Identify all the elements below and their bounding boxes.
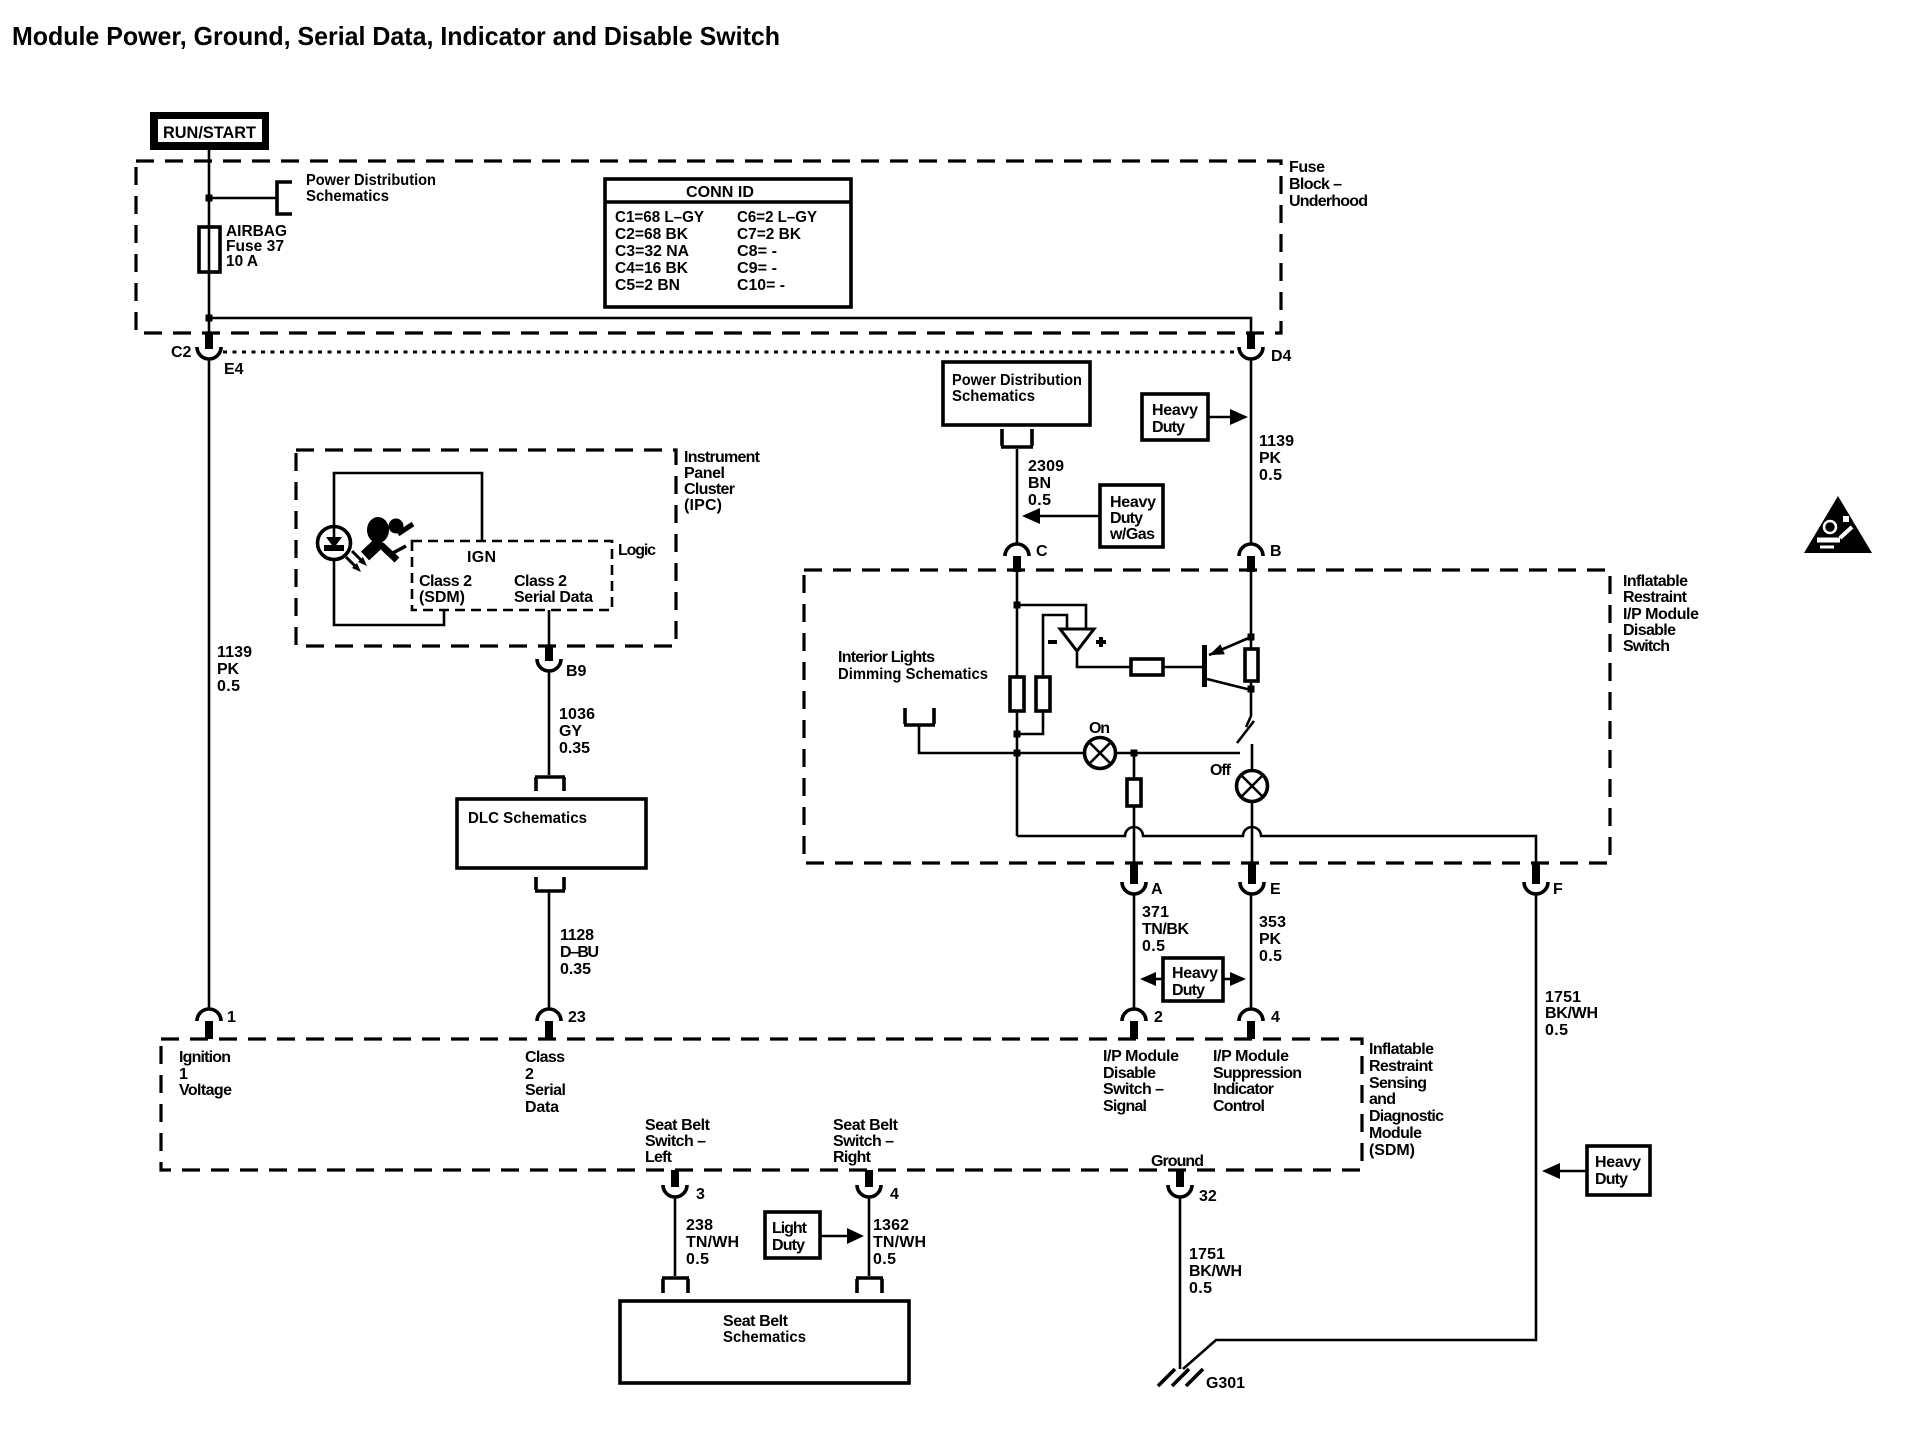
svg-text:Voltage: Voltage	[179, 1082, 232, 1099]
svg-text:PK: PK	[1259, 450, 1281, 467]
svg-text:C1=68 L–GY: C1=68 L–GY	[615, 209, 704, 226]
svg-text:0.5: 0.5	[686, 1251, 709, 1268]
label I/P Module Disable Switch - Signal	[1103, 1048, 1179, 1115]
svg-text:238: 238	[686, 1217, 713, 1234]
svg-text:Signal: Signal	[1103, 1098, 1147, 1115]
wire bus to D4	[209, 318, 1251, 333]
SDM dashed box	[161, 1039, 1362, 1170]
svg-text:Module: Module	[1369, 1125, 1422, 1142]
svg-text:0.5: 0.5	[217, 678, 240, 695]
svg-text:BK/WH: BK/WH	[1545, 1005, 1598, 1022]
svg-text:E: E	[1270, 881, 1281, 898]
svg-text:Seat Belt: Seat Belt	[833, 1117, 899, 1134]
svg-text:Switch –: Switch –	[645, 1133, 706, 1150]
svg-text:Schematics: Schematics	[306, 188, 389, 205]
label Inflatable Restraint I/P Module Disable Switch	[1623, 573, 1699, 655]
svg-text:I/P Module: I/P Module	[1623, 606, 1699, 623]
svg-text:2: 2	[1154, 1009, 1163, 1026]
wire pin 3 to seat belt schematics (238 TN/WH)	[674, 1197, 677, 1276]
airbag indicator lamp LED	[318, 527, 351, 560]
label Fuse Block - Underhood	[1289, 159, 1368, 210]
wire comparator output to base resistor	[1077, 651, 1131, 667]
svg-text:TN/WH: TN/WH	[686, 1234, 739, 1251]
connector D4	[1239, 333, 1292, 365]
label 2309 BN 0.5	[1028, 458, 1064, 509]
svg-text:D4: D4	[1271, 348, 1292, 365]
wire divider bottoms join	[1017, 711, 1043, 753]
svg-text:Switch –: Switch –	[833, 1133, 894, 1150]
svg-text:TN/BK: TN/BK	[1142, 921, 1189, 938]
label 1751 BK/WH 0.5 upper	[1545, 989, 1598, 1039]
svg-text:1751: 1751	[1189, 1246, 1225, 1263]
bracket above DLC box	[535, 777, 565, 791]
connector 3	[663, 1170, 705, 1203]
connector 32	[1168, 1170, 1217, 1205]
wire main vertical to ground bus	[1016, 753, 1019, 836]
svg-text:C7=2 BK: C7=2 BK	[737, 226, 801, 243]
connector 4	[1239, 1009, 1280, 1039]
svg-text:C5=2 BN: C5=2 BN	[615, 277, 680, 294]
bracket below DLC box	[535, 877, 565, 891]
svg-text:Data: Data	[525, 1099, 559, 1116]
svg-text:BK/WH: BK/WH	[1189, 1263, 1242, 1280]
connector 1	[197, 1009, 236, 1039]
svg-text:1128: 1128	[560, 927, 594, 944]
label AIRBAG Fuse 37 10 A	[226, 223, 287, 270]
airbag warning triangle	[1804, 496, 1872, 553]
svg-text:(IPC): (IPC)	[684, 497, 722, 514]
svg-text:RUN/START: RUN/START	[163, 123, 257, 142]
label Seat Belt Switch - Right	[833, 1117, 899, 1166]
svg-text:Duty: Duty	[1595, 1171, 1628, 1188]
node junction collector	[1248, 686, 1255, 693]
svg-text:Module Power, Ground, Serial D: Module Power, Ground, Serial Data, Indic…	[12, 21, 780, 51]
label Class 2 (SDM)	[419, 573, 472, 606]
resistor R divider right	[1036, 677, 1050, 711]
connector A	[1122, 863, 1163, 898]
node junction comparator feed	[1014, 602, 1021, 609]
wire class 2 serial data to B9	[548, 610, 551, 646]
label Instrument Panel Cluster (IPC)	[684, 449, 761, 514]
label 1036 GY 0.35	[559, 706, 595, 757]
wire resistor to A	[1133, 806, 1136, 863]
wire comparator minus input to divider	[1043, 615, 1067, 677]
wire D4 to B (1139 PK)	[1250, 359, 1253, 544]
svg-text:Disable: Disable	[1103, 1065, 1156, 1082]
svg-text:I/P Module: I/P Module	[1213, 1048, 1289, 1065]
svg-text:Duty: Duty	[772, 1237, 805, 1254]
wire 2309 BN to C	[1016, 449, 1019, 544]
svg-text:353: 353	[1259, 914, 1286, 931]
svg-text:TN/WH: TN/WH	[873, 1234, 926, 1251]
connector B9	[537, 646, 587, 680]
svg-text:0.5: 0.5	[1545, 1022, 1568, 1039]
wire to comparator plus input	[1017, 605, 1086, 629]
wire 1128 D-BU	[548, 892, 551, 1009]
svg-text:Instrument: Instrument	[684, 449, 761, 466]
power distribution stub bracket	[277, 182, 292, 214]
svg-text:CONN ID: CONN ID	[686, 184, 754, 201]
bracket above seat belt box left	[662, 1278, 689, 1293]
bracket below power distribution box	[1001, 429, 1033, 447]
svg-text:Disable: Disable	[1623, 622, 1676, 639]
svg-text:Heavy: Heavy	[1595, 1154, 1641, 1171]
svg-text:Block –: Block –	[1289, 176, 1342, 193]
svg-text:Dimming Schematics: Dimming Schematics	[838, 666, 988, 683]
svg-text:23: 23	[568, 1009, 586, 1026]
lamp Off	[1237, 771, 1268, 802]
svg-text:Suppression: Suppression	[1213, 1065, 1302, 1082]
svg-text:C6=2 L–GY: C6=2 L–GY	[737, 209, 817, 226]
node junction main vertical at lamp line	[1014, 750, 1021, 757]
wire RUN/START to fuse	[208, 150, 211, 227]
wire IPC indicator loop	[334, 473, 482, 625]
in-line connector dotted line	[223, 351, 1238, 354]
svg-text:3: 3	[696, 1186, 705, 1203]
node junction disable signal tap	[1131, 750, 1138, 757]
connector F	[1524, 863, 1563, 898]
svg-text:Switch: Switch	[1623, 638, 1670, 655]
fuse AIRBAG Fuse 37 10A	[199, 227, 220, 272]
label Inflatable Restraint Sensing and Diagnostic Module (SDM)	[1369, 1041, 1444, 1159]
svg-text:Ground: Ground	[1151, 1153, 1204, 1170]
wire on lamp to switch	[1116, 752, 1240, 755]
logic dashed box	[412, 541, 612, 610]
svg-text:I/P Module: I/P Module	[1103, 1048, 1179, 1065]
svg-text:PK: PK	[1259, 931, 1281, 948]
heavy duty w/gas flag box	[1022, 485, 1163, 547]
wire F to ground (1751 BK/WH)	[1183, 894, 1536, 1369]
bracket interior lights dimming	[904, 708, 935, 725]
label I/P Module Suppression Indicator Control	[1213, 1048, 1302, 1115]
wire C into box	[1016, 572, 1019, 677]
svg-text:F: F	[1553, 881, 1563, 898]
airbag pictogram	[365, 517, 413, 560]
svg-text:0.5: 0.5	[1259, 948, 1282, 965]
svg-text:E4: E4	[224, 361, 244, 378]
ground bus with hops to F	[1017, 827, 1536, 863]
heavy duty flag box right	[1542, 1146, 1650, 1195]
svg-text:Inflatable: Inflatable	[1369, 1041, 1434, 1058]
svg-text:Left: Left	[645, 1149, 673, 1166]
resistor base	[1131, 659, 1163, 675]
wire collector to switch contact	[1246, 681, 1251, 727]
heavy duty flag box middle	[1140, 958, 1246, 1001]
svg-text:and: and	[1369, 1091, 1396, 1108]
CONN ID table	[605, 179, 851, 307]
svg-text:PK: PK	[217, 661, 239, 678]
label Power Distribution Schematics	[306, 172, 436, 205]
node junction divider	[1014, 731, 1021, 738]
svg-text:Interior Lights: Interior Lights	[838, 649, 935, 666]
svg-text:Diagnostic: Diagnostic	[1369, 1108, 1444, 1125]
svg-text:Serial Data: Serial Data	[514, 589, 593, 606]
resistor disable signal	[1127, 779, 1141, 806]
svg-text:Logic: Logic	[618, 542, 656, 559]
wire disable signal branch	[1133, 753, 1136, 779]
svg-text:IGN: IGN	[467, 549, 496, 566]
svg-text:4: 4	[1271, 1009, 1280, 1026]
svg-text:Duty: Duty	[1172, 982, 1205, 999]
svg-text:1036: 1036	[559, 706, 595, 723]
power distribution schematics box	[943, 362, 1090, 425]
svg-text:BN: BN	[1028, 475, 1051, 492]
connector 23	[537, 1009, 586, 1039]
wire pin 32 to ground (1751 BK/WH)	[1179, 1197, 1182, 1369]
wire 1036 GY	[548, 671, 551, 775]
svg-text:Inflatable: Inflatable	[1623, 573, 1688, 590]
svg-text:0.5: 0.5	[873, 1251, 896, 1268]
wire off lamp to E	[1251, 801, 1254, 863]
label 1139 PK 0.5 right	[1259, 433, 1294, 484]
svg-text:0.5: 0.5	[1028, 492, 1051, 509]
bracket above seat belt box right	[856, 1278, 883, 1293]
svg-text:0.5: 0.5	[1189, 1280, 1212, 1297]
svg-text:0.35: 0.35	[559, 740, 590, 757]
svg-text:371: 371	[1142, 904, 1169, 921]
svg-text:Seat Belt: Seat Belt	[645, 1117, 711, 1134]
label Ignition 1 Voltage	[179, 1049, 232, 1099]
wire bracket stem to on lamp line	[919, 726, 1084, 753]
svg-text:1139: 1139	[217, 644, 252, 661]
svg-text:Underhood: Underhood	[1289, 193, 1368, 210]
svg-text:DLC Schematics: DLC Schematics	[468, 810, 587, 827]
wire switch to off lamp	[1251, 744, 1254, 771]
connector C	[1005, 543, 1048, 572]
svg-text:D–BU: D–BU	[560, 944, 599, 961]
wire C2 to SDM pin 1 (1139 PK)	[208, 359, 211, 1009]
svg-text:32: 32	[1199, 1188, 1217, 1205]
svg-text:Duty: Duty	[1152, 419, 1185, 436]
seat belt schematics box	[620, 1301, 909, 1383]
svg-text:Duty: Duty	[1110, 510, 1143, 527]
svg-text:B: B	[1270, 543, 1282, 560]
svg-text:Control: Control	[1213, 1098, 1265, 1115]
svg-text:2309: 2309	[1028, 458, 1064, 475]
svg-text:Restraint: Restraint	[1623, 589, 1688, 606]
wire tap to power distribution stub	[209, 197, 277, 200]
svg-text:G301: G301	[1206, 1375, 1245, 1392]
svg-text:1139: 1139	[1259, 433, 1294, 450]
label 1751 BK/WH 0.5 lower	[1189, 1246, 1242, 1297]
resistor R divider left	[1010, 677, 1024, 711]
connector B	[1239, 543, 1282, 572]
resistor collector load	[1245, 649, 1258, 681]
svg-text:0.5: 0.5	[1259, 467, 1282, 484]
svg-text:Sensing: Sensing	[1369, 1075, 1427, 1092]
label 353 PK 0.5	[1259, 914, 1286, 965]
svg-text:(SDM): (SDM)	[1369, 1142, 1415, 1159]
svg-text:Class 2: Class 2	[419, 573, 472, 590]
svg-text:4: 4	[890, 1186, 899, 1203]
connector E	[1240, 863, 1281, 898]
svg-text:Heavy: Heavy	[1172, 965, 1218, 982]
node junction feed to D4	[206, 315, 213, 322]
label 1139 PK 0.5 left	[217, 644, 252, 695]
svg-text:1: 1	[179, 1066, 188, 1083]
svg-text:1751: 1751	[1545, 989, 1581, 1006]
svg-text:C9= -: C9= -	[737, 260, 777, 277]
connector C2 E4	[171, 333, 244, 378]
label Class 2 Serial Data	[514, 573, 593, 606]
light duty flag box	[765, 1212, 864, 1258]
wire B into box to emitter junction	[1250, 572, 1253, 649]
indicator ray arrows	[346, 551, 367, 572]
svg-text:Cluster: Cluster	[684, 481, 735, 498]
svg-text:GY: GY	[559, 723, 582, 740]
svg-text:C10= -: C10= -	[737, 277, 785, 294]
svg-text:Schematics: Schematics	[952, 388, 1035, 405]
svg-text:w/Gas: w/Gas	[1109, 526, 1155, 543]
label Seat Belt Switch - Left	[645, 1117, 711, 1166]
svg-text:Switch –: Switch –	[1103, 1081, 1164, 1098]
svg-text:Serial: Serial	[525, 1082, 566, 1099]
svg-text:Ignition: Ignition	[179, 1049, 231, 1066]
svg-text:Heavy: Heavy	[1110, 494, 1156, 511]
label Interior Lights Dimming Schematics	[838, 649, 988, 683]
svg-text:Indicator: Indicator	[1213, 1081, 1274, 1098]
ground G301	[1158, 1369, 1245, 1392]
svg-text:(SDM): (SDM)	[419, 589, 465, 606]
node junction emitter	[1248, 634, 1255, 641]
svg-text:Class: Class	[525, 1049, 565, 1066]
svg-text:Power Distribution: Power Distribution	[952, 372, 1082, 389]
svg-text:2: 2	[525, 1066, 534, 1083]
svg-text:C3=32 NA: C3=32 NA	[615, 243, 689, 260]
svg-text:Fuse: Fuse	[1289, 159, 1325, 176]
lamp On	[1085, 720, 1116, 769]
transistor Q1	[1202, 637, 1251, 690]
inflatable restraint IP module disable switch dashed box	[804, 570, 1610, 863]
svg-text:On: On	[1089, 720, 1110, 737]
label 371 TN/BK 0.5	[1142, 904, 1189, 955]
svg-text:Seat Belt: Seat Belt	[723, 1313, 789, 1330]
node junction at power distribution tap	[206, 195, 213, 202]
comparator triangle	[1048, 629, 1106, 651]
connector 2	[1122, 1009, 1163, 1039]
svg-text:Power Distribution: Power Distribution	[306, 172, 436, 189]
wire A to pin 2 (371 TN/BK)	[1133, 894, 1136, 1009]
svg-text:Schematics: Schematics	[723, 1329, 806, 1346]
wire E to pin 4 (353 PK)	[1250, 894, 1253, 1009]
fuse block underhood dashed box	[136, 161, 1281, 333]
heavy duty flag box top	[1142, 394, 1248, 440]
label 1362 TN/WH 0.5	[873, 1217, 926, 1268]
svg-text:0.35: 0.35	[560, 961, 591, 978]
svg-text:Panel: Panel	[684, 465, 725, 482]
label 1128 D-BU 0.35	[560, 927, 599, 978]
ignition switch RUN/START	[150, 112, 269, 150]
svg-text:Restraint: Restraint	[1369, 1058, 1434, 1075]
wire fuse to C2	[208, 272, 211, 333]
svg-text:C4=16 BK: C4=16 BK	[615, 260, 688, 277]
svg-text:Light: Light	[772, 1220, 808, 1237]
wire pin 4 to seat belt schematics (1362 TN/WH)	[868, 1197, 871, 1276]
svg-text:Heavy: Heavy	[1152, 402, 1198, 419]
label Class 2 Serial Data pin23	[525, 1049, 566, 1116]
svg-text:0.5: 0.5	[1142, 938, 1165, 955]
svg-text:Right: Right	[833, 1149, 872, 1166]
svg-text:A: A	[1151, 881, 1163, 898]
svg-text:1: 1	[227, 1009, 236, 1026]
label 238 TN/WH 0.5	[686, 1217, 739, 1268]
DLC schematics box	[457, 799, 646, 868]
switch blade	[1237, 721, 1254, 743]
svg-text:1362: 1362	[873, 1217, 909, 1234]
svg-text:C: C	[1036, 543, 1048, 560]
svg-text:B9: B9	[566, 663, 587, 680]
svg-text:Class 2: Class 2	[514, 573, 567, 590]
wire base resistor to transistor	[1163, 666, 1203, 669]
svg-text:Off: Off	[1210, 762, 1232, 779]
svg-text:10 A: 10 A	[226, 253, 258, 270]
svg-text:C8= -: C8= -	[737, 243, 777, 260]
connector 4 seat belt right	[857, 1170, 899, 1203]
svg-text:C2: C2	[171, 344, 192, 361]
instrument panel cluster dashed box	[296, 450, 676, 646]
svg-text:C2=68 BK: C2=68 BK	[615, 226, 688, 243]
